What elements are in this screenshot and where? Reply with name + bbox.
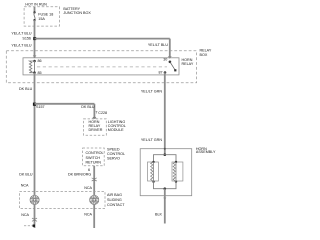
svg-text:C228: C228: [98, 111, 107, 115]
wire: S157 to LCM (horizontal then down): [35, 103, 95, 105]
svg-text:CONTROL: CONTROL: [86, 151, 104, 155]
fuse 18 element: [34, 12, 35, 20]
connector arrow below horn box: [163, 198, 166, 200]
speed control servo (dashed): [83, 148, 105, 166]
relay contact terminal 87: [164, 71, 167, 74]
svg-text:HORN: HORN: [182, 58, 193, 62]
relay mechanical link (dashed): [37, 66, 167, 68]
svg-text:85: 85: [38, 71, 42, 75]
svg-text:RETURN: RETURN: [86, 161, 102, 165]
connector arc at LCM: [93, 117, 96, 119]
svg-text:NCA: NCA: [84, 213, 92, 217]
relay coil straight bar: [34, 61, 36, 73]
wire: fuse to splice S156: [34, 20, 36, 58]
horn top junction: [164, 153, 167, 156]
svg-text:S157: S157: [36, 105, 45, 109]
svg-text:YEL/LT BLU: YEL/LT BLU: [11, 31, 31, 35]
fuse 18 terminal top: [33, 11, 35, 13]
horn branch bottom wires: [154, 182, 177, 189]
svg-text:DK BLU: DK BLU: [19, 87, 33, 91]
relay contact arm: [170, 62, 175, 71]
svg-text:6: 6: [88, 168, 90, 172]
connector arrow at relay box top (coil side): [33, 55, 37, 58]
svg-text:7: 7: [95, 110, 97, 114]
fuse 18 terminal bottom: [33, 19, 35, 21]
horn relay (solid box): [23, 58, 179, 75]
svg-text:DRIVER: DRIVER: [89, 128, 103, 132]
svg-text:DK BLU: DK BLU: [19, 172, 33, 176]
svg-text:MODULE: MODULE: [108, 128, 124, 132]
battery junction box (dashed): [24, 7, 59, 26]
svg-text:RELAY: RELAY: [200, 48, 212, 52]
wire: relay 85 down through S157 to sliding contact: [34, 73, 36, 196]
sliding contact coil right: [90, 195, 99, 204]
node at dashed fragment: [33, 225, 35, 227]
svg-text:RELAY: RELAY: [182, 62, 194, 66]
svg-text:87: 87: [158, 71, 162, 75]
svg-text:YEL/LT GRN: YEL/LT GRN: [141, 138, 163, 142]
svg-text:YEL/LT BLU: YEL/LT BLU: [11, 44, 31, 48]
dashed fragment (horn switch box, cut): [24, 225, 33, 227]
horn coil left terminals: [152, 161, 154, 163]
relay coil winding: [29, 61, 34, 73]
splice S157: [33, 103, 36, 106]
svg-text:ASSEMBLY: ASSEMBLY: [196, 150, 216, 154]
wire: down to pin 30: [169, 39, 171, 58]
relay contact terminal 30: [169, 61, 172, 64]
horn coil right winding: [173, 162, 176, 182]
sliding contact coil left: [30, 195, 39, 204]
horn bottom junction: [164, 187, 167, 190]
svg-text:SWITCH: SWITCH: [86, 156, 101, 160]
wire: horn assembly to ground lead: [164, 189, 166, 224]
svg-text:S156: S156: [22, 37, 31, 41]
svg-text:YEL/LT BLU: YEL/LT BLU: [148, 43, 168, 47]
svg-text:NCA: NCA: [21, 213, 29, 217]
svg-text:SPEED: SPEED: [107, 148, 120, 152]
wire: servo pin 6 down to sliding contact: [93, 166, 95, 196]
svg-text:YEL/LT GRN: YEL/LT GRN: [141, 89, 163, 93]
lighting control module (dashed): [84, 119, 107, 135]
inline connector on left wire: [32, 218, 37, 221]
splice S156: [33, 37, 36, 40]
svg-text:AIR BAG: AIR BAG: [107, 193, 122, 197]
relay box (dashed): [6, 51, 196, 83]
wire: feed stub into fuse: [34, 7, 36, 12]
svg-text:BOX: BOX: [200, 53, 208, 57]
svg-text:NCA: NCA: [84, 186, 92, 190]
relay coil terminal 86: [33, 60, 36, 63]
svg-text:DK BLU: DK BLU: [81, 105, 95, 109]
horn coil sub-box left: [148, 162, 159, 181]
svg-text:15A: 15A: [38, 17, 45, 21]
wire: relay 87 down to horn assembly: [164, 73, 166, 155]
svg-text:BLK: BLK: [155, 212, 163, 216]
svg-text:SLIDING: SLIDING: [107, 198, 122, 202]
svg-text:SERVO: SERVO: [107, 157, 120, 161]
svg-text:JUNCTION BOX: JUNCTION BOX: [63, 11, 91, 15]
svg-text:86: 86: [38, 59, 42, 63]
svg-text:NCA: NCA: [21, 183, 29, 187]
svg-text:DK BRN/ORG: DK BRN/ORG: [68, 173, 91, 177]
svg-text:30: 30: [163, 57, 167, 61]
relay coil terminal 85: [33, 71, 36, 74]
horn coil sub-box right: [172, 162, 183, 181]
horn assembly box: [140, 149, 192, 196]
svg-text:HOT IN RUN: HOT IN RUN: [25, 3, 47, 7]
horn coil right terminals: [175, 161, 177, 163]
wire: S156 to horn relay pin 30 (horizontal): [35, 38, 170, 40]
air bag sliding contact box (dashed): [20, 192, 106, 209]
connector dot at horn box top: [164, 148, 166, 150]
inline connector on servo wire: [92, 178, 97, 181]
connector arrow at relay box edge: [168, 56, 172, 59]
horn coil left winding: [151, 162, 154, 182]
svg-text:CONTACT: CONTACT: [107, 203, 125, 207]
wire: right below sliding contact: [93, 205, 95, 228]
relay contact arm tip: [174, 69, 176, 71]
wire: left below sliding contact: [34, 205, 36, 228]
svg-text:CONTROL: CONTROL: [107, 152, 125, 156]
horn branch top wires: [154, 155, 177, 162]
